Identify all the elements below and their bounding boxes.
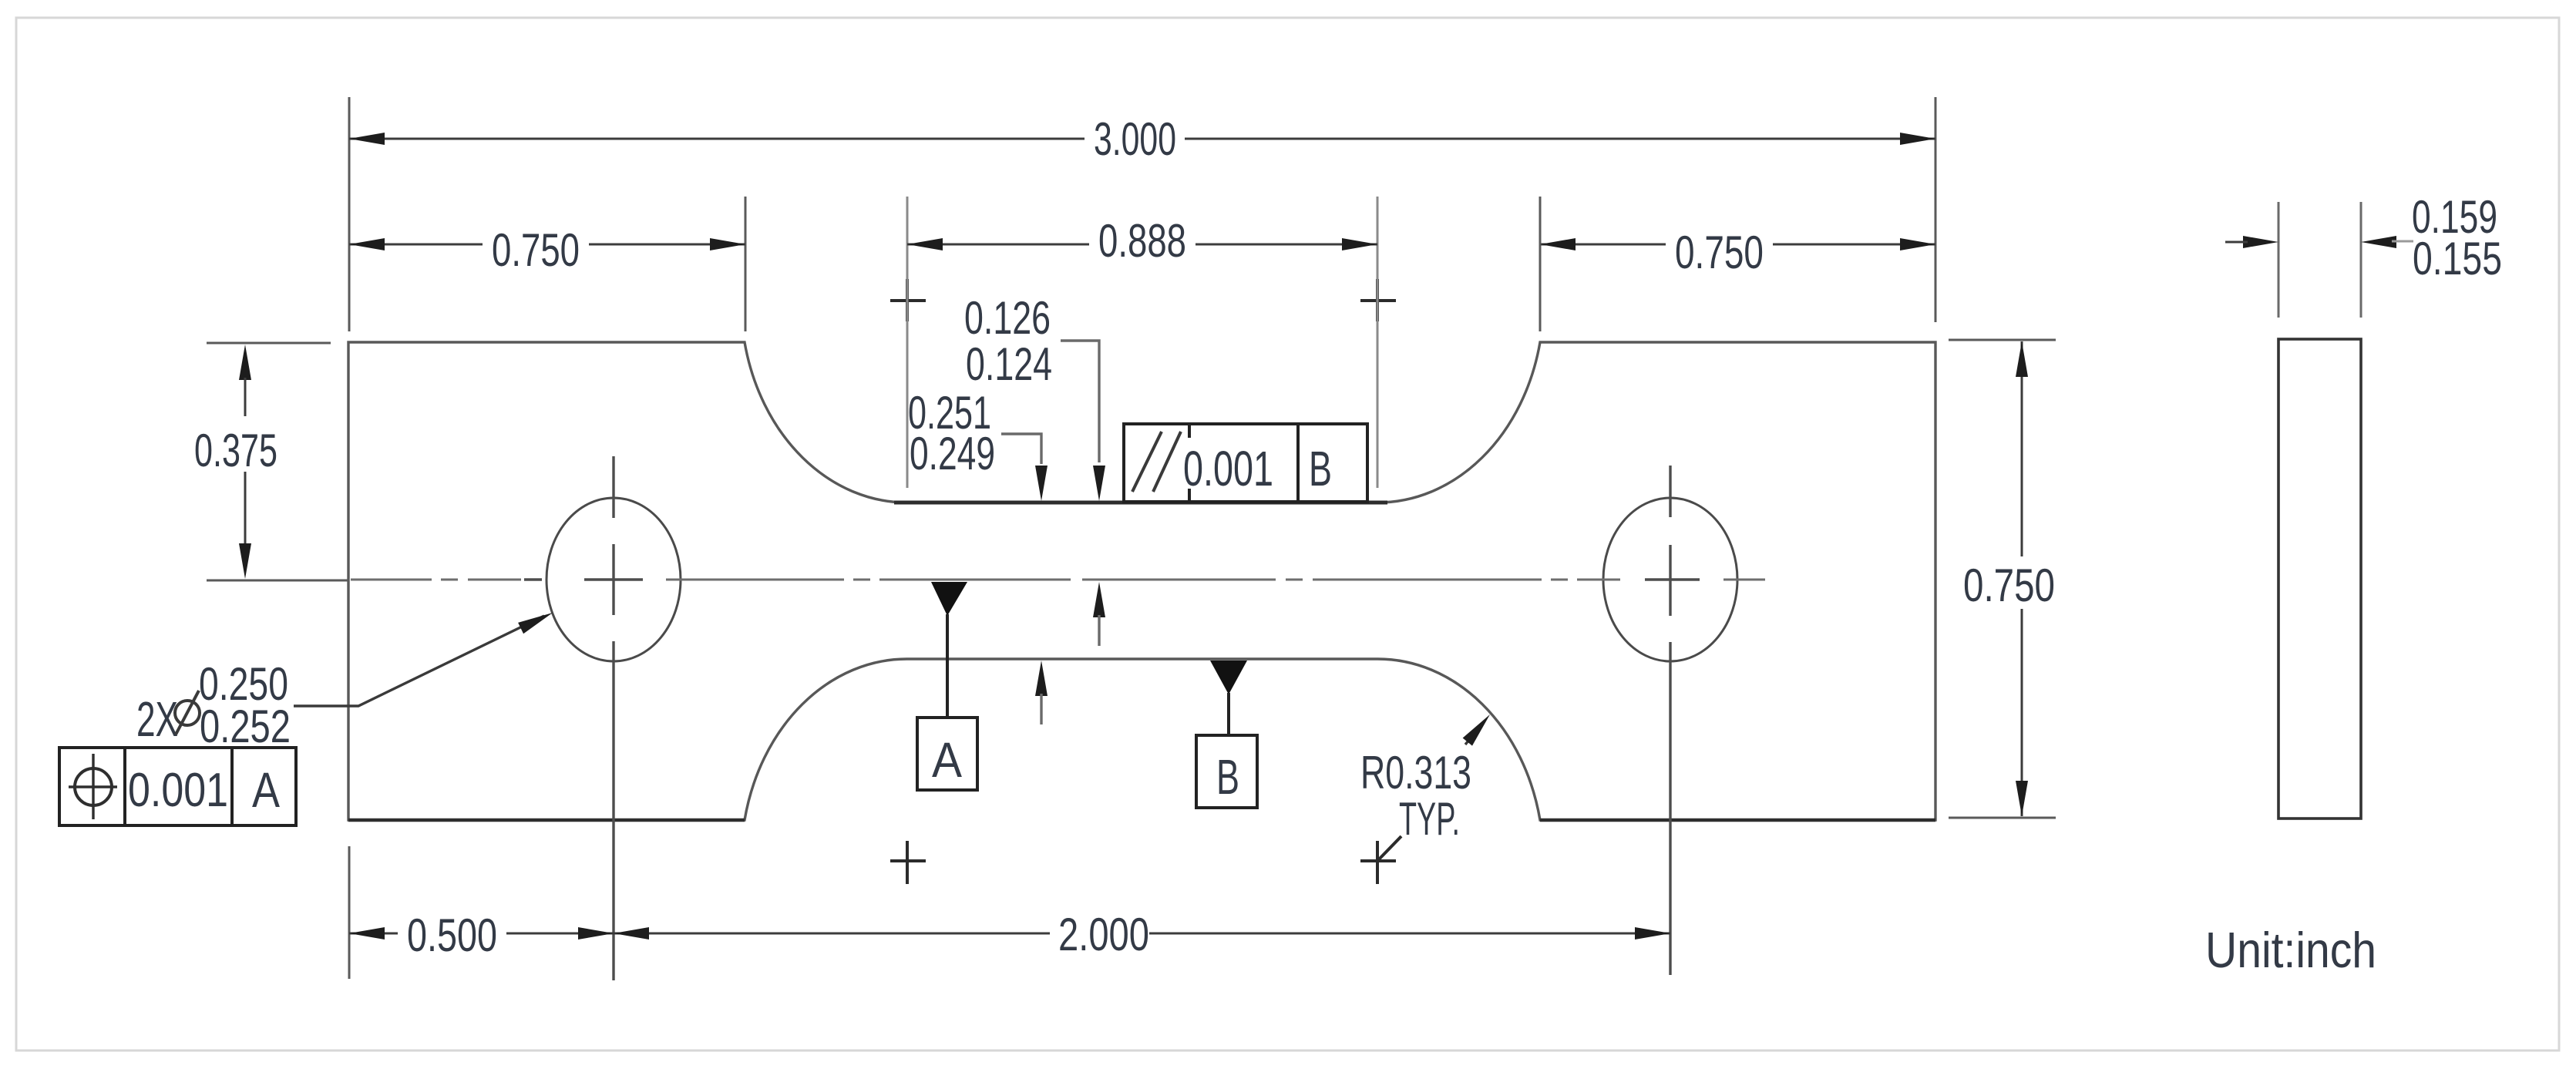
dimension 0.750 left extension line right (fillet corner) <box>745 197 747 331</box>
FCF position divider 2 <box>230 748 234 825</box>
hole left crosshair <box>524 456 643 615</box>
leader 0.126/0.124: arrow up onto centerline <box>1093 582 1105 617</box>
datum feature B: box <box>1196 735 1257 808</box>
dimension 3.000 arrow right <box>1900 133 1935 145</box>
dimension 0.500 arrow right <box>578 927 614 940</box>
dimension 0.750 vertical right: extension line bottom <box>1949 817 2056 819</box>
fillet arc center cross bottom-right <box>1360 836 1401 884</box>
FCF position box <box>59 748 296 825</box>
hole left centerline extension down to datum dims <box>612 641 614 980</box>
dimension 0.375 extension line top <box>207 342 331 345</box>
side view dim right arrow tail <box>2392 240 2413 243</box>
dimension 2.000 arrow right <box>1635 927 1670 940</box>
svg-text:0.888: 0.888 <box>1098 215 1186 267</box>
svg-text:Unit:inch: Unit:inch <box>2205 922 2376 978</box>
side view dim left arrow tail <box>2225 241 2248 244</box>
leader 0.126/0.124: arrow down onto neck top <box>1093 466 1105 501</box>
svg-text:0.249: 0.249 <box>910 428 995 479</box>
dimension 0.500 arrow left <box>349 927 385 940</box>
svg-text:0.252: 0.252 <box>200 701 291 752</box>
dimension 3.000 arrow left <box>349 133 385 145</box>
dimension 2.000 arrow left <box>614 927 649 940</box>
FCF position symbol circle <box>75 768 112 805</box>
dimension 3.000 extension line right <box>1935 97 1937 322</box>
dimension 0.375 arrow down <box>239 543 251 579</box>
leader 0.126/0.124: bend <box>1061 341 1099 462</box>
centerline (horizontal dash-dot) <box>351 579 1765 581</box>
svg-text:R0.313: R0.313 <box>1360 747 1471 798</box>
svg-text:0.124: 0.124 <box>966 338 1052 390</box>
side view dim extension line right <box>2360 202 2362 318</box>
bottom edge left (darker) <box>348 819 745 822</box>
dimension 3.000 line <box>349 138 1935 140</box>
datum feature A: stem <box>946 614 949 718</box>
dimension 0.888 extension line left <box>906 197 909 488</box>
hole left <box>546 498 681 661</box>
side view dim extension line left <box>2278 202 2280 318</box>
leader 0.251/0.249: arrow up onto neck bottom <box>1035 661 1048 696</box>
R0.313 leader arrow <box>1463 711 1495 746</box>
dimension 0.500: line <box>349 933 614 935</box>
datum feature B: stem <box>1227 693 1230 735</box>
svg-text:TYP.: TYP. <box>1399 793 1460 845</box>
fillet arc center cross top-right <box>1360 279 1396 321</box>
dimension 0.750 right-top arrow left <box>1540 238 1576 250</box>
dimension 0.750 vertical right: line <box>2021 341 2023 816</box>
leader 0.126/0.124: lower stem <box>1098 615 1100 646</box>
svg-text:0.750: 0.750 <box>1963 560 2055 611</box>
part outline (dog-bone specimen front view) <box>348 342 1935 820</box>
dimension 0.750 vertical right: extension line top <box>1949 339 2056 341</box>
FCF parallelism box <box>1124 424 1367 502</box>
side view dim left arrow (pointing right) <box>2243 236 2278 248</box>
datum feature A: box <box>917 718 977 790</box>
svg-text:0.155: 0.155 <box>2413 233 2502 284</box>
svg-text:0.001: 0.001 <box>128 764 228 817</box>
svg-text:B: B <box>1216 749 1239 805</box>
svg-text:A: A <box>252 762 280 818</box>
hole right centerline extension down to 2.000 dim <box>1669 642 1671 975</box>
R0.313 leader line <box>1465 727 1480 745</box>
dimension 0.750 right-top extension line left <box>1539 197 1542 331</box>
side view rectangle <box>2278 339 2361 819</box>
FCF parallelism divider ticks <box>1188 424 1191 438</box>
svg-text:0.500: 0.500 <box>407 909 497 961</box>
fillet arc center cross bottom-left <box>890 841 926 884</box>
dimension 0.500: extension line left <box>348 846 351 979</box>
FCF parallelism symbol // <box>1132 432 1162 492</box>
hole callout leader <box>294 616 544 706</box>
dimension 0.888 arrow right <box>1342 238 1377 250</box>
fillet arc center cross top-left <box>890 279 926 321</box>
dimension 0.888 line <box>907 244 1377 246</box>
dimension 0.750 left arrow left <box>349 238 385 250</box>
dimension 0.375 extension line bottom (center) <box>207 580 348 582</box>
FCF position symbol cross <box>69 785 117 788</box>
svg-text:3.000: 3.000 <box>1094 113 1176 165</box>
dimension 0.750 vertical right: arrow up <box>2016 341 2028 377</box>
side view dim right arrow (pointing left) <box>2361 236 2396 248</box>
dimension 0.750 left line <box>349 244 745 246</box>
dimension 3.000 extension line left <box>348 97 351 331</box>
dimension 2.000: line <box>614 933 1670 935</box>
leader 0.251/0.249: arrow down onto neck top <box>1035 466 1048 501</box>
dimension 0.888 arrow left <box>907 238 943 250</box>
svg-text:2X: 2X <box>136 691 178 747</box>
dimension 0.888 extension line right <box>1377 197 1379 488</box>
svg-text:0.750: 0.750 <box>1675 227 1764 278</box>
FCF parallelism divider 2 <box>1296 424 1300 502</box>
svg-text:2.000: 2.000 <box>1058 909 1149 960</box>
svg-text:A: A <box>932 732 962 788</box>
dimension 0.375 arrow up <box>239 345 251 380</box>
dimension 0.750 left arrow right <box>710 238 745 250</box>
svg-text:0.001: 0.001 <box>1183 441 1273 496</box>
svg-text:0.375: 0.375 <box>194 425 277 476</box>
datum feature A: triangle on centerline <box>931 582 967 616</box>
dimension 0.375 stem up <box>244 378 247 416</box>
leader 0.251/0.249: bend <box>1001 434 1041 464</box>
svg-text:B: B <box>1309 441 1332 496</box>
bottom edge right (darker) <box>1540 819 1935 822</box>
dimension 0.750 right-top line <box>1540 244 1935 246</box>
datum feature B: triangle on neck bottom <box>1210 661 1247 694</box>
neck top edge (darker) <box>894 501 1387 505</box>
dimension 0.750 right-top arrow right <box>1900 238 1935 250</box>
hole right crosshair <box>1645 466 1700 616</box>
hole right <box>1603 498 1737 661</box>
svg-text:0.750: 0.750 <box>492 224 580 276</box>
dimension 0.375 stem down <box>244 472 247 547</box>
FCF position divider 1 <box>123 748 126 825</box>
hole callout leader arrow <box>518 607 555 634</box>
svg-text:0.126: 0.126 <box>964 292 1051 344</box>
hole callout diameter symbol <box>175 701 200 725</box>
dimension 0.750 vertical right: arrow down <box>2016 781 2028 816</box>
leader 0.251/0.249: lower stem <box>1040 694 1042 724</box>
